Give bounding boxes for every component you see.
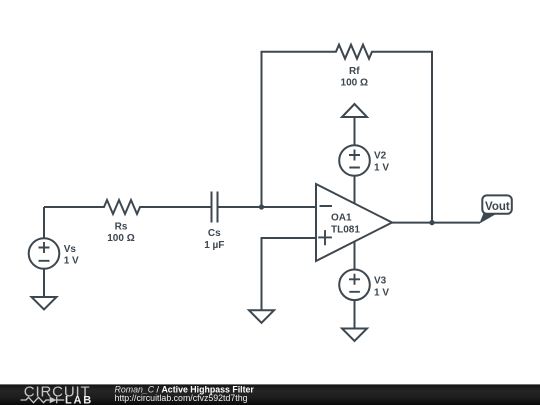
svg-text:1 V: 1 V — [374, 288, 389, 299]
svg-text:1 V: 1 V — [374, 163, 389, 174]
svg-text:OA1: OA1 — [331, 213, 352, 224]
svg-text:1 µF: 1 µF — [204, 240, 224, 251]
svg-text:Cs: Cs — [208, 228, 221, 239]
svg-text:V3: V3 — [374, 276, 387, 287]
svg-text:Vs: Vs — [64, 244, 77, 255]
svg-text:Vout: Vout — [485, 201, 510, 213]
svg-text:V2: V2 — [374, 151, 387, 162]
svg-text:100 Ω: 100 Ω — [341, 78, 368, 89]
svg-text:TL081: TL081 — [331, 225, 360, 236]
svg-text:Rf: Rf — [349, 66, 360, 77]
svg-text:100 Ω: 100 Ω — [107, 233, 134, 244]
svg-text:Rs: Rs — [115, 221, 128, 232]
svg-text:1 V: 1 V — [64, 256, 79, 267]
svg-text:LAB: LAB — [65, 394, 93, 405]
svg-text:http://circuitlab.com/cfvz592t: http://circuitlab.com/cfvz592td7thg — [115, 393, 248, 403]
